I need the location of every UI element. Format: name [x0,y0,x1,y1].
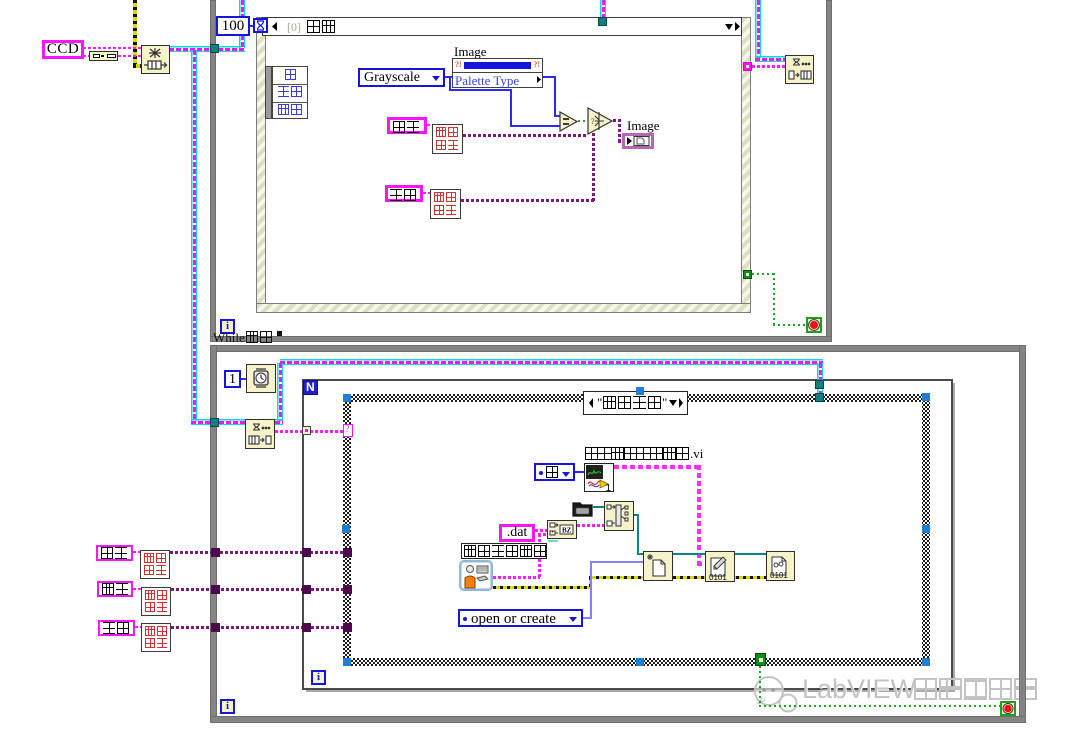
wire: queue ref vertical up behind 100 constant [239,0,245,48]
svg-text:BZ: BZ [562,527,572,535]
case border checkered frame [343,394,930,666]
wire: teal write to read [735,553,766,555]
wire: CCD cluster wire upper [83,47,141,49]
node: dequeue element icon [245,419,275,449]
tunnel: teal queue on for top border [815,380,824,389]
node: Image indicator terminal [622,133,654,149]
wire: purple image wire from get image 2 up to select [461,199,595,202]
node: iteration terminal top loop [220,319,235,334]
tunnel: teal on event top border [598,17,607,26]
wire: blue Grayscale to property node [445,76,453,78]
node: cluster conversion small icon [89,51,118,61]
wire: purple image wire from get image 1 to select [463,134,587,137]
tunnels: dark purple on while2/for/case borders [211,548,220,557]
case selector label [583,391,688,415]
wire: error wire vertical from top edge [133,0,137,67]
wire: label to get-image node [427,124,432,126]
node: stop button 2 [1000,701,1016,716]
wire: queue wire from top into enqueue [755,0,761,62]
wire: blue branch down-right to equals [449,76,451,90]
wire: queue wire bottom elbow into dequeue [191,419,245,425]
tunnel: queue wire into top while loop [210,44,219,53]
node: enqueue element icon [785,55,814,84]
node: write file icon [705,551,735,582]
node: 1 constant [224,370,241,388]
wire: queue wire above event top tunnel [600,0,606,17]
wire: magenta from user-input up to concat [493,576,540,579]
wire: 100 to hourglass [250,25,258,27]
label: VI caption CJK + .vi [585,447,715,461]
label: source image 2 [96,545,133,561]
node: .dat constant [499,524,535,542]
wire: purple image wire 3 [171,626,344,629]
node: event structure timeout hourglass [253,18,268,33]
node: 100 timeout constant [216,16,250,36]
wire: teal new-file to write [672,553,705,555]
wire: CCD cluster wire lower [83,55,141,57]
node: folder icon [572,500,593,518]
tiny cyan stub [548,540,558,542]
label: Image indicator text [627,118,659,134]
node: equals comparator [559,111,579,132]
wire: queue wire horizontal across loop top [280,359,823,365]
node: while2 i terminal [220,699,235,714]
wire: green dotted to stop button [752,273,774,275]
node: prompt user input express VI [459,560,493,591]
tunnel: selector wire through for border [302,426,311,435]
node: select function [587,107,614,135]
while loop right border [826,0,832,341]
wire: purple image wire 1 across loops [170,551,344,554]
node: concatenate strings icon [547,520,577,539]
label: binary 2 [98,620,135,636]
case inner white [351,402,922,658]
node: N count terminal [303,380,318,395]
label: prompt user input caption [461,543,547,559]
node: event data node (source/type/time) [265,66,272,119]
wire: lavender open mode to new-file [583,617,592,619]
while loop 2 borders [210,345,1025,352]
node: open/create file icon [643,551,673,581]
while loop left border [210,0,216,340]
label: template [97,581,133,597]
event structure header bar [262,17,742,36]
wire: purple image wire 2 [171,588,344,591]
wire: label to get-image node 2 [423,192,430,194]
node: read file icon [766,551,795,581]
node: interleave/cluster-array conversion icon [604,501,634,531]
label: binary image (CJK) [385,185,423,202]
node: wait ms metronome icon [246,364,276,393]
tunnel: green on case bottom border [755,653,766,666]
wire: queue ref horizontal out of Obtain Queue [169,46,245,52]
svg-text:?: ? [591,117,595,126]
wire: pink dashed from VI right [614,465,701,469]
wire: teal folder to cluster-array node [593,506,604,508]
node: get image 3 [140,550,170,579]
tunnel: blue above case selector [636,387,644,395]
tunnel: teal on while2 left border [210,418,219,427]
wire: purple select output to Image indicator [613,119,621,122]
wire: error wire elbow into queue node [133,64,142,68]
node: for loop i terminal [311,670,326,685]
tunnel: magenta tunnel on event right border [743,62,752,71]
while loop bottom border [210,336,832,342]
wire: green dotted equals to select [578,120,588,122]
wire: magenta dotted selector wire [275,430,345,433]
node: get image 1 [432,124,463,154]
event structure striped bottom border [256,303,751,313]
node: Grayscale ring constant [358,68,445,87]
node: Obtain Queue icon [141,45,170,74]
node: read enum constant [534,463,575,481]
wire: teal from conversion down to new-file [634,514,639,516]
tunnels: blue on case borders [343,394,351,402]
node: stop button (top loop) [806,317,822,333]
wire: green dotted case to stop 2 [759,666,761,707]
wire: yellow error wire from user input to files [493,586,592,589]
node: get image 5 [141,623,171,652]
event structure striped left border [256,17,266,313]
wire: magenta dotted from event tunnel to enqueue [752,65,785,68]
label: Image (above property node) [454,44,486,60]
node: property node Image/Palette Type [452,58,543,88]
wire: blue from property node right to equals [543,76,556,78]
node: VI icon (algorithm parameter storage) [584,463,614,492]
wire: queue vertical down into case [817,363,823,402]
tunnel: case selector ? [343,424,353,437]
label: While loop caption [213,330,288,345]
wire: queue ref vertical down to bottom loop [191,50,197,424]
node: CCD string control label [42,40,84,59]
node: get image 4 [141,587,171,616]
wire: blue 1 to wait [241,378,246,380]
wire: magenta from concat to cluster-array node [577,524,604,527]
wire: magenta .dat to concat [535,529,547,532]
event structure striped right border [741,17,751,313]
tunnel: green on event right border [743,270,752,279]
wire: blue read to VI [575,471,584,473]
tunnel: teal queue on case top border [815,393,824,402]
label: source image (CJK) [387,117,427,134]
node: get image 2 [430,189,461,219]
node: open-or-create enum [458,609,583,627]
